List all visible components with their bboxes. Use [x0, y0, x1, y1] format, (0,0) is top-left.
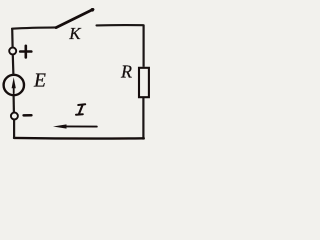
wire top-left segment — [12, 27, 57, 28]
wire between source and minus terminal — [13, 96, 15, 112]
svg-text:K: K — [68, 24, 82, 43]
wire bottom segment — [14, 137, 144, 140]
resistor R — [139, 68, 149, 97]
label I — [76, 104, 85, 114]
source E internal arrow — [12, 77, 16, 93]
wire between plus terminal and source — [12, 55, 15, 75]
source E circle — [4, 75, 24, 95]
switch K blade tip blob — [91, 8, 95, 12]
wire right lower vertical — [142, 98, 144, 140]
switch K blade — [56, 9, 93, 27]
wire left upper vertical — [11, 28, 14, 47]
wire right upper vertical — [143, 25, 145, 67]
plus sign — [20, 46, 31, 58]
wire bottom-left vertical — [13, 120, 15, 139]
svg-text:E: E — [33, 70, 46, 91]
svg-text:R: R — [120, 61, 132, 81]
current arrow I — [53, 124, 97, 128]
background paper — [0, 0, 168, 152]
terminal minus — [11, 113, 18, 120]
terminal plus — [9, 48, 16, 55]
minus sign — [24, 114, 32, 117]
wire top-right segment — [97, 24, 144, 26]
